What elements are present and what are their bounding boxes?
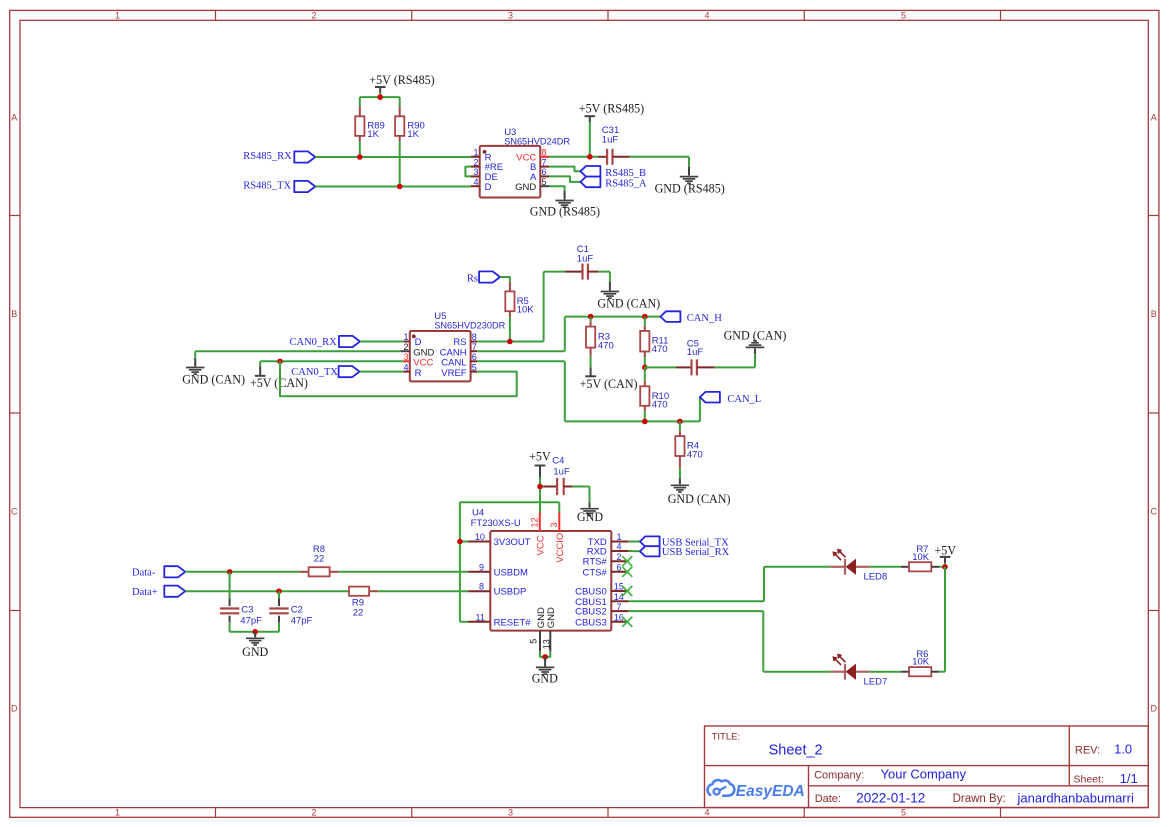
no-connect RTS# bbox=[622, 556, 632, 566]
svg-text:GND (CAN): GND (CAN) bbox=[597, 296, 660, 310]
junction GND C3/C2 bbox=[252, 629, 258, 635]
port CAN0_TX bbox=[291, 366, 359, 378]
power flag +5V at LEDs bbox=[934, 543, 956, 563]
port RS485_TX bbox=[243, 181, 315, 192]
svg-text:GND: GND bbox=[546, 607, 557, 628]
svg-text:Sheet:: Sheet: bbox=[1074, 774, 1104, 786]
resistor R11 470 bbox=[640, 317, 668, 357]
svg-text:47pF: 47pF bbox=[291, 616, 313, 627]
svg-text:D: D bbox=[485, 182, 492, 193]
svg-text:+5V (CAN): +5V (CAN) bbox=[250, 376, 308, 390]
junction VCC(CAN)/VREF loop bbox=[277, 359, 283, 365]
wire C3/C2 to GND bbox=[230, 631, 279, 633]
svg-text:470: 470 bbox=[687, 450, 703, 461]
no-connect CTS# bbox=[622, 567, 632, 577]
port CAN_L bbox=[700, 392, 761, 405]
svg-text:RESET#: RESET# bbox=[494, 617, 532, 628]
svg-text:8: 8 bbox=[542, 148, 547, 158]
ground GND (RS485) right bbox=[655, 167, 725, 196]
port RS485_RX bbox=[243, 151, 315, 162]
wire R89 to RS485_RX net bbox=[359, 141, 361, 157]
port RS485_B bbox=[580, 166, 646, 179]
wire C1 to GND(CAN) bbox=[609, 272, 611, 282]
svg-text:3: 3 bbox=[549, 522, 559, 527]
svg-text:GND (CAN): GND (CAN) bbox=[724, 328, 787, 342]
wire VCC net U3 pin8 bbox=[549, 122, 598, 157]
junction U4 GND pins bbox=[542, 654, 548, 660]
port CAN_H bbox=[660, 311, 722, 324]
svg-text:1K: 1K bbox=[367, 129, 379, 140]
junction CAN_H/R3 bbox=[588, 314, 594, 320]
svg-text:U4: U4 bbox=[472, 508, 484, 519]
svg-text:LED7: LED7 bbox=[864, 677, 888, 688]
svg-text:5: 5 bbox=[542, 177, 547, 187]
svg-text:1uF: 1uF bbox=[553, 467, 570, 478]
resistor R7 10K bbox=[901, 544, 939, 572]
svg-text:Data+: Data+ bbox=[132, 587, 158, 598]
capacitor C31 1uF bbox=[598, 125, 630, 165]
svg-text:6: 6 bbox=[617, 563, 622, 573]
svg-text:TITLE:: TITLE: bbox=[712, 731, 741, 742]
svg-text:6: 6 bbox=[542, 167, 547, 177]
wire R6 to +5V rail bbox=[939, 671, 945, 673]
port Rs bbox=[467, 271, 500, 284]
resistor R9 22 bbox=[349, 587, 378, 619]
IC U4 FT230XS-U bbox=[468, 508, 629, 652]
svg-text:10K: 10K bbox=[517, 305, 535, 316]
capacitor C5 1uF bbox=[645, 338, 755, 375]
svg-text:R: R bbox=[415, 368, 422, 379]
svg-text:10K: 10K bbox=[912, 552, 930, 563]
svg-text:5: 5 bbox=[529, 639, 539, 644]
wire CBUS1 to LED8 bbox=[629, 567, 831, 602]
svg-text:RS485_B: RS485_B bbox=[605, 168, 646, 179]
resistor R10 470 bbox=[640, 367, 669, 411]
port Data- bbox=[132, 566, 185, 578]
svg-text:13: 13 bbox=[542, 639, 552, 649]
svg-text:Your Company: Your Company bbox=[881, 767, 967, 782]
svg-text:RTS#: RTS# bbox=[583, 557, 608, 568]
wire R7 to +5V bbox=[939, 566, 945, 568]
svg-text:LED8: LED8 bbox=[864, 572, 888, 583]
svg-text:+5V (RS485): +5V (RS485) bbox=[369, 73, 434, 87]
junction +5V(RS485) bbox=[377, 94, 383, 100]
svg-text:RS485_TX: RS485_TX bbox=[243, 181, 291, 192]
capacitor C4 1uF bbox=[544, 455, 573, 495]
wire R3 to +5V(CAN) bbox=[590, 356, 592, 368]
wire net Data- to R8 bbox=[185, 571, 299, 573]
svg-text:GND (RS485): GND (RS485) bbox=[655, 182, 725, 196]
svg-text:1: 1 bbox=[403, 332, 408, 342]
resistor R89 1K bbox=[355, 106, 385, 141]
port CAN0_RX bbox=[290, 336, 361, 348]
power flag +5V at U4 bbox=[529, 450, 551, 477]
junction Data-/C3 bbox=[227, 569, 233, 575]
wire LED7 to R6 bbox=[870, 671, 901, 673]
svg-text:10: 10 bbox=[475, 532, 485, 542]
junction R11/R10/C5 bbox=[642, 365, 648, 371]
wire +5V to U4 VCC and C4 bbox=[540, 477, 544, 513]
svg-text:VCC: VCC bbox=[535, 535, 546, 555]
wire RS net U5 pin8 to R5/C1 bbox=[477, 272, 543, 342]
svg-text:470: 470 bbox=[652, 344, 668, 355]
ground GND at U4 bbox=[532, 657, 558, 685]
svg-text:22: 22 bbox=[353, 607, 364, 618]
junction VCC/C31 bbox=[587, 154, 593, 160]
svg-text:C: C bbox=[1151, 506, 1158, 516]
svg-text:GND: GND bbox=[242, 645, 268, 659]
svg-text:3V3OUT: 3V3OUT bbox=[494, 537, 531, 548]
svg-text:3: 3 bbox=[403, 352, 408, 362]
svg-text:1uF: 1uF bbox=[602, 135, 619, 146]
capacitor C3 47pF bbox=[220, 572, 262, 632]
svg-text:SN65HVD24DR: SN65HVD24DR bbox=[504, 137, 570, 147]
svg-text:4: 4 bbox=[617, 542, 622, 552]
svg-text:+5V (CAN): +5V (CAN) bbox=[580, 377, 638, 391]
svg-text:11: 11 bbox=[476, 612, 485, 622]
svg-text:FT230XS-U: FT230XS-U bbox=[471, 518, 521, 529]
svg-text:47pF: 47pF bbox=[240, 616, 262, 627]
power flag +5V (CAN) left bbox=[250, 367, 308, 391]
port USB Serial_RX bbox=[640, 546, 730, 558]
svg-text:D: D bbox=[1151, 703, 1158, 713]
svg-text:2: 2 bbox=[311, 10, 316, 20]
svg-text:+5V (RS485): +5V (RS485) bbox=[579, 101, 644, 115]
ground GND (CAN) bottom bbox=[668, 478, 731, 506]
resistor R4 470 bbox=[675, 421, 702, 467]
svg-text:1K: 1K bbox=[407, 129, 419, 140]
svg-text:C4: C4 bbox=[552, 455, 564, 466]
LED LED7 bbox=[830, 654, 887, 688]
svg-text:2: 2 bbox=[617, 552, 622, 562]
port Data+ bbox=[132, 586, 185, 598]
svg-text:CBUS3: CBUS3 bbox=[575, 617, 607, 628]
svg-text:5: 5 bbox=[901, 808, 906, 818]
svg-text:A: A bbox=[1151, 112, 1157, 122]
junction Data+/C2 bbox=[276, 588, 282, 594]
svg-text:7: 7 bbox=[472, 342, 477, 352]
svg-text:2: 2 bbox=[403, 342, 408, 352]
svg-text:janardhanbabumarri: janardhanbabumarri bbox=[1017, 790, 1134, 805]
svg-text:+5V: +5V bbox=[934, 543, 956, 557]
junction RS485_TX/R90 bbox=[397, 184, 403, 190]
svg-text:RS485_A: RS485_A bbox=[605, 179, 647, 190]
wire +5V(RS485) to R89/R90 bbox=[360, 93, 400, 107]
svg-text:Sheet_2: Sheet_2 bbox=[769, 742, 823, 758]
svg-text:GND (CAN): GND (CAN) bbox=[182, 373, 245, 387]
svg-text:1uF: 1uF bbox=[687, 347, 704, 358]
title block bbox=[705, 726, 1149, 808]
svg-text:470: 470 bbox=[652, 400, 668, 411]
svg-text:14: 14 bbox=[614, 592, 624, 602]
svg-text:B: B bbox=[1151, 309, 1157, 319]
wire R8 to USBDM bbox=[339, 571, 469, 573]
wire net RS485_RX bbox=[315, 156, 471, 158]
wire R4 to GND(CAN) bbox=[679, 468, 681, 478]
port RS485_A bbox=[580, 177, 647, 190]
svg-text:RS485_RX: RS485_RX bbox=[243, 151, 292, 162]
wire U3 #RE-DE loop bbox=[465, 167, 471, 177]
svg-text:USBDM: USBDM bbox=[494, 567, 528, 578]
svg-text:Drawn By:: Drawn By: bbox=[953, 793, 1006, 805]
ground GND (CAN) upper right (inverted) bbox=[724, 328, 787, 354]
svg-text:A: A bbox=[11, 112, 17, 122]
wire TXD to port bbox=[629, 541, 640, 543]
IC U5 SN65HVD230DR bbox=[400, 311, 505, 382]
wire U3 pin7 B to port bbox=[549, 167, 580, 172]
EasyEDA logo bbox=[708, 780, 805, 800]
svg-text:Company:: Company: bbox=[814, 770, 864, 782]
wire U5 pin2 GND net bbox=[195, 351, 400, 358]
no-connect CBUS0 bbox=[622, 586, 632, 596]
svg-text:+5V: +5V bbox=[529, 450, 551, 464]
capacitor C1 1uF bbox=[544, 244, 610, 280]
svg-text:GND: GND bbox=[577, 510, 603, 524]
wire U5 pin3 VCC net +5V(CAN) bbox=[260, 361, 403, 366]
power flag +5V (RS485) at C31 bbox=[579, 101, 644, 122]
wire 3V3OUT to VCCIO and RESET# bbox=[460, 502, 559, 622]
junction CAN_H/R11 bbox=[642, 314, 648, 320]
svg-text:CBUS2: CBUS2 bbox=[575, 607, 607, 618]
svg-text:GND: GND bbox=[515, 182, 536, 193]
ground GND at C4 bbox=[577, 502, 603, 524]
wire C4 to GND bbox=[573, 487, 590, 503]
svg-text:5: 5 bbox=[901, 10, 906, 20]
svg-text:3: 3 bbox=[473, 167, 478, 177]
resistor R5 10K bbox=[505, 282, 534, 317]
LED LED8 bbox=[830, 549, 887, 583]
wire CBUS2 to LED7 bbox=[629, 611, 831, 672]
ground GND at C3/C2 bbox=[242, 632, 268, 659]
ground GND (RS485) at U3 pin5 bbox=[530, 191, 600, 219]
junction CAN_L/R10 bbox=[642, 419, 648, 425]
capacitor C2 47pF bbox=[269, 591, 312, 632]
svg-text:VREF: VREF bbox=[441, 368, 467, 379]
wire R9 to USBDP bbox=[378, 590, 468, 592]
svg-text:6: 6 bbox=[472, 352, 477, 362]
wire U3 pin6 A to port bbox=[549, 176, 580, 182]
svg-text:CTS#: CTS# bbox=[583, 567, 608, 578]
junction +5V LEDs bbox=[942, 564, 948, 570]
svg-text:D: D bbox=[11, 703, 18, 713]
junction RS485_RX/R89 bbox=[357, 154, 363, 160]
junction CAN_L/R4 bbox=[677, 419, 683, 425]
wire U4 pins 5,13 to GND bbox=[540, 652, 550, 657]
svg-text:1.0: 1.0 bbox=[1114, 742, 1132, 757]
svg-text:USB Serial_RX: USB Serial_RX bbox=[662, 547, 730, 558]
junction +5V/C4 bbox=[537, 484, 543, 490]
svg-text:10K: 10K bbox=[912, 656, 930, 667]
svg-text:22: 22 bbox=[314, 554, 325, 565]
svg-text:12: 12 bbox=[530, 517, 540, 527]
junction RS/R5 bbox=[507, 339, 513, 345]
resistor R3 470 bbox=[586, 317, 614, 356]
wire R90 to RS485_TX net bbox=[399, 141, 401, 186]
svg-text:3: 3 bbox=[508, 808, 513, 818]
svg-text:Data-: Data- bbox=[132, 567, 156, 578]
svg-text:EasyEDA: EasyEDA bbox=[736, 783, 805, 800]
svg-text:2: 2 bbox=[473, 157, 478, 167]
svg-text:USBDP: USBDP bbox=[494, 587, 527, 598]
no-connect CBUS3 bbox=[622, 617, 632, 627]
svg-text:3: 3 bbox=[508, 10, 513, 20]
wire U5 pin5 VREF loop bbox=[280, 361, 517, 396]
resistor R8 22 bbox=[300, 544, 339, 577]
svg-text:CAN_L: CAN_L bbox=[727, 394, 761, 405]
wire R11 to C5 node bbox=[644, 357, 646, 367]
svg-text:7: 7 bbox=[542, 157, 547, 167]
svg-text:Rs: Rs bbox=[467, 273, 478, 284]
svg-text:1/1: 1/1 bbox=[1120, 771, 1138, 786]
wire net CAN_H bbox=[477, 317, 660, 352]
svg-text:1: 1 bbox=[617, 532, 622, 542]
svg-text:C2: C2 bbox=[291, 605, 303, 616]
svg-text:8: 8 bbox=[472, 332, 477, 342]
ground GND (CAN) at C1 bbox=[597, 282, 660, 311]
wire U3 pin5 GND bbox=[549, 186, 565, 191]
svg-text:Date:: Date: bbox=[815, 793, 841, 805]
power flag +5V (RS485) top bbox=[369, 73, 434, 93]
svg-text:4: 4 bbox=[704, 10, 709, 20]
wire RXD to port bbox=[629, 550, 640, 552]
svg-text:GND (RS485): GND (RS485) bbox=[530, 204, 600, 218]
svg-text:1: 1 bbox=[115, 10, 120, 20]
wire Rs to R5 bbox=[500, 277, 510, 282]
svg-text:B: B bbox=[11, 309, 17, 319]
IC U3 SN65HVD24DR bbox=[471, 127, 570, 198]
port USB Serial_TX bbox=[640, 536, 729, 548]
wire +5V to R6 bbox=[944, 567, 946, 672]
svg-text:9: 9 bbox=[479, 562, 484, 572]
svg-text:C3: C3 bbox=[241, 605, 253, 616]
svg-text:1uF: 1uF bbox=[577, 254, 594, 265]
svg-text:4: 4 bbox=[704, 808, 709, 818]
wire C5 to GND(CAN) upper right bbox=[754, 354, 756, 367]
svg-text:REV:: REV: bbox=[1075, 744, 1100, 756]
wire net Data+ to R9 bbox=[185, 590, 349, 592]
svg-text:CAN_H: CAN_H bbox=[687, 313, 722, 324]
svg-text:GND: GND bbox=[532, 671, 558, 685]
svg-text:1: 1 bbox=[473, 148, 478, 158]
svg-text:CAN0_RX: CAN0_RX bbox=[290, 337, 338, 348]
svg-text:1: 1 bbox=[115, 808, 120, 818]
ground GND (CAN) left bbox=[182, 358, 245, 387]
svg-text:4: 4 bbox=[403, 362, 408, 372]
svg-text:GND (CAN): GND (CAN) bbox=[668, 492, 731, 506]
svg-text:C: C bbox=[11, 506, 18, 516]
wire R5 to RS net bbox=[509, 317, 511, 342]
wire net CAN0_RX bbox=[360, 341, 403, 343]
svg-text:4: 4 bbox=[473, 177, 478, 187]
resistor R6 10K bbox=[901, 649, 939, 677]
wire LED8 to R7 bbox=[870, 566, 901, 568]
junction 3V3OUT bbox=[457, 539, 463, 545]
svg-text:2022-01-12: 2022-01-12 bbox=[856, 790, 925, 805]
power flag +5V (CAN) under R3 bbox=[580, 367, 638, 391]
wire net RS485_TX bbox=[315, 186, 471, 188]
wire net CAN0_TX bbox=[360, 371, 404, 373]
svg-text:2: 2 bbox=[311, 808, 316, 818]
svg-text:7: 7 bbox=[617, 602, 622, 612]
resistor R90 1K bbox=[395, 106, 425, 141]
svg-text:8: 8 bbox=[479, 582, 484, 592]
wire net CAN_L bbox=[477, 361, 700, 421]
svg-text:VCCIO: VCCIO bbox=[555, 533, 566, 563]
svg-text:470: 470 bbox=[598, 340, 614, 351]
wire C31 to GND(RS485) bbox=[630, 157, 690, 167]
svg-text:5: 5 bbox=[472, 362, 477, 372]
svg-text:SN65HVD230DR: SN65HVD230DR bbox=[434, 320, 505, 330]
